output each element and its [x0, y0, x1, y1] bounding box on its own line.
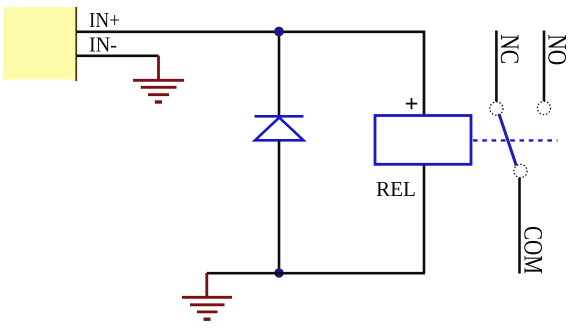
polarity + mark — [406, 98, 417, 109]
contact COM terminal circle — [514, 164, 527, 177]
ground (input return) — [133, 56, 184, 102]
ground (bottom) — [182, 273, 232, 319]
wire (diode top branch) — [278, 32, 281, 116]
svg-text:REL: REL — [376, 177, 416, 201]
wire COM pin — [518, 178, 521, 274]
connector J1 (input terminal block body) — [4, 7, 76, 80]
svg-text:IN-: IN- — [89, 32, 117, 56]
relay coil REL body — [375, 116, 471, 165]
svg-text:IN+: IN+ — [89, 8, 120, 32]
bottom wire — [207, 272, 425, 275]
switch armature (NC to COM) — [499, 114, 516, 166]
actuation dashed link — [473, 139, 558, 141]
wire (diode bottom branch) — [278, 141, 281, 274]
contact NO terminal circle — [537, 101, 550, 114]
wire (relay bottom lead) — [423, 165, 426, 274]
svg-text:NO: NO — [543, 34, 572, 65]
wire IN- — [77, 54, 159, 57]
diode D1 anode triangle — [255, 118, 304, 141]
wire NO pin — [543, 31, 546, 102]
junction dot (bottom) — [274, 268, 283, 277]
connector J1 right edge — [75, 7, 77, 81]
wire IN+ (top rail from connector to relay) — [77, 32, 425, 116]
diode D1 cathode bar — [255, 115, 304, 118]
svg-text:NC: NC — [495, 34, 524, 64]
junction dot (top) — [274, 27, 284, 37]
wire NC pin — [495, 31, 498, 102]
contact NC terminal circle — [490, 102, 503, 115]
svg-text:COM: COM — [518, 226, 547, 274]
